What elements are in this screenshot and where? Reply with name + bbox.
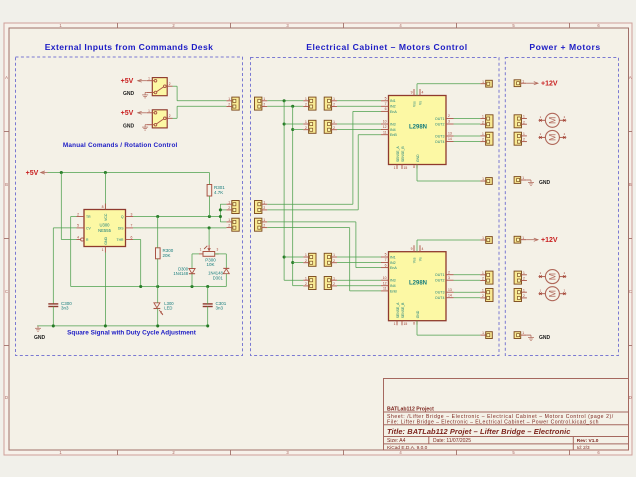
svg-text:D301: D301: [213, 275, 224, 280]
node: section box Electrical Cabinet Motors Control: [251, 58, 500, 356]
svg-text:SENSE_A: SENSE_A: [396, 302, 400, 318]
svg-text:IN1: IN1: [390, 255, 396, 259]
svg-text:6: 6: [385, 107, 387, 111]
diode D301 1N4148: [208, 268, 229, 280]
svg-text:Electrical Cabinet – Motors Co: Electrical Cabinet – Motors Control: [306, 42, 467, 52]
switch SW2: [147, 109, 173, 128]
svg-text:Title: BATLab112 Projet – Lift: Title: BATLab112 Projet – Lifter Bridge …: [387, 427, 570, 436]
wire output Q pin3: [133, 215, 220, 218]
connector pair J11/J12 IN1-IN2 lower: [303, 253, 316, 266]
svg-text:OUT2: OUT2: [435, 279, 445, 283]
svg-text:3: 3: [131, 212, 133, 216]
connector J19 (OUT1/2 chip1): [480, 115, 493, 128]
wire IN2 net (switch signal 2): [267, 105, 381, 286]
wire Vs chip2 to connector: [417, 240, 480, 252]
wire D300 to feedback row: [191, 274, 193, 287]
wire EnA chip2: [267, 222, 381, 268]
wire +5V to VCC pin 8: [104, 173, 106, 210]
svg-text:A: A: [629, 75, 632, 80]
ground (switch SW2): [123, 123, 148, 130]
op-amp U300 NE555: [77, 204, 134, 253]
svg-text:1: 1: [148, 77, 150, 81]
svg-text:GND: GND: [416, 154, 420, 162]
svg-text:File: Lifter Bridge – Electron: File: Lifter Bridge – Electronic – ELect…: [387, 419, 599, 425]
connector J3 (box1 edge, enable lower): [226, 218, 239, 231]
wire IN4 chip2 row: [293, 285, 381, 287]
wire R300 to feedback row: [157, 259, 159, 287]
svg-text:GND: GND: [539, 180, 551, 186]
svg-text:Vss: Vss: [412, 101, 416, 107]
wire SW1 output to connector J1: [173, 86, 227, 101]
svg-text:GND: GND: [416, 310, 420, 318]
wire OUT1/OUT2 chip2: [454, 275, 481, 281]
power +5V (main rail): [26, 170, 48, 177]
svg-text:Size: A4: Size: A4: [387, 438, 406, 444]
power +12V (upper): [526, 81, 558, 88]
svg-text:C: C: [629, 289, 632, 294]
svg-text:Power + Motors: Power + Motors: [529, 42, 600, 52]
svg-text:DIS: DIS: [118, 226, 124, 230]
ground (switch SW1): [123, 91, 148, 98]
svg-text:EnB: EnB: [390, 289, 397, 293]
svg-text:15: 15: [404, 166, 408, 170]
wire TR pin2 feedback: [71, 217, 77, 287]
connector J26 (GND upper): [514, 176, 526, 183]
svg-text:B: B: [5, 182, 8, 187]
svg-text:GND: GND: [34, 335, 46, 341]
potentiometer P300: [199, 245, 219, 267]
diode D300 1N4148: [173, 266, 195, 276]
wire EnB chip2: [267, 228, 381, 291]
connector J18 (GND chip2): [480, 331, 492, 338]
wire C300 to GND rail: [52, 307, 54, 326]
svg-text:9: 9: [411, 91, 413, 95]
wire IN3 chip1 row: [284, 123, 381, 125]
svg-text:SENSE_B: SENSE_B: [401, 146, 405, 162]
svg-text:1: 1: [394, 322, 396, 326]
svg-text:IN1: IN1: [390, 99, 396, 103]
svg-text:15: 15: [404, 322, 408, 326]
svg-text:2: 2: [448, 270, 450, 274]
svg-text:10: 10: [383, 276, 387, 280]
wire SW2 output to connector J1: [173, 106, 227, 118]
svg-text:6: 6: [385, 263, 387, 267]
wire IN1 chip2 row: [284, 256, 381, 258]
svg-text:20K: 20K: [163, 253, 171, 258]
svg-text:Manual Comands / Rotation Cont: Manual Comands / Rotation Control: [63, 142, 178, 149]
wire IN3 chip2 row: [284, 279, 381, 281]
connector J30 (GND lower): [514, 331, 526, 338]
svg-text:SENSE_B: SENSE_B: [401, 302, 405, 318]
connector J21 (OUT1/2 chip2): [480, 271, 493, 284]
motor M4: [539, 287, 567, 301]
wire LED to GND rail: [157, 309, 159, 326]
transistor driver U302 L298N: [381, 245, 454, 326]
wire OUT3/OUT4 chip2: [454, 292, 481, 298]
svg-text:11: 11: [383, 130, 387, 134]
connector J4 (box2 edge, switch signals in): [255, 97, 268, 110]
svg-text:4: 4: [77, 235, 79, 239]
svg-text:Square Signal with Duty Cycle: Square Signal with Duty Cycle Adjustment: [67, 330, 197, 337]
svg-text:NE555: NE555: [98, 228, 111, 233]
connector J24 (motor 1): [514, 115, 527, 128]
wire C301 to GND rail: [207, 307, 209, 326]
svg-text:10K: 10K: [206, 262, 214, 267]
svg-text:External Inputs from Commands: External Inputs from Commands Desk: [45, 42, 214, 52]
svg-text:4: 4: [422, 91, 424, 95]
wire EnB chip1: [267, 135, 381, 210]
motor M3: [539, 270, 567, 284]
svg-text:2: 2: [448, 114, 450, 118]
connector pair J13/J14 IN3-IN4 lower: [303, 276, 316, 289]
wire IN2 chip2 row: [293, 262, 381, 264]
svg-text:Date: 11/07/2025: Date: 11/07/2025: [433, 438, 471, 444]
svg-text:OUT4: OUT4: [435, 140, 445, 144]
svg-text:2: 2: [169, 114, 171, 118]
svg-text:TR: TR: [86, 215, 91, 219]
svg-text:7: 7: [385, 102, 387, 106]
wire D301 to feedback row: [225, 274, 227, 287]
wire Q to R300: [157, 217, 159, 248]
power +5V (switch SW2): [121, 110, 147, 117]
motor M2: [539, 130, 567, 144]
svg-text:IN2: IN2: [390, 261, 396, 265]
connector J27 (+12V lower): [514, 236, 526, 243]
svg-text:2: 2: [169, 82, 171, 86]
svg-text:3n3: 3n3: [61, 306, 69, 311]
svg-text:EnA: EnA: [390, 110, 397, 114]
svg-text:8: 8: [413, 321, 415, 325]
LED L300: [154, 301, 175, 315]
svg-text:Vs: Vs: [418, 101, 422, 105]
svg-text:3n3: 3n3: [216, 306, 224, 311]
ground (box3 lower): [526, 335, 550, 341]
resistor R300: [156, 248, 174, 259]
svg-text:OUT3: OUT3: [435, 291, 445, 295]
power +12V (lower): [526, 237, 558, 244]
svg-text:L298N: L298N: [409, 125, 427, 131]
svg-text:+5V: +5V: [121, 110, 134, 117]
svg-text:D: D: [5, 395, 8, 400]
svg-text:IN3: IN3: [390, 122, 396, 126]
svg-text:1: 1: [200, 248, 202, 252]
wire THR pin6: [133, 240, 141, 287]
node: section box Power + Motors: [505, 58, 618, 356]
svg-text:1: 1: [148, 109, 150, 113]
wire OUT3/OUT4 chip1: [454, 136, 481, 142]
svg-text:VCC: VCC: [104, 213, 108, 221]
svg-text:14: 14: [448, 293, 452, 297]
svg-text:5: 5: [77, 224, 79, 228]
svg-text:9: 9: [411, 247, 413, 251]
connector J28 (motor 3): [514, 271, 527, 284]
svg-text:KiCad E.D.A. 9.0.0: KiCad E.D.A. 9.0.0: [387, 445, 428, 451]
connector J16 (GND chip1): [480, 177, 492, 184]
connector J29 (motor 4): [514, 288, 527, 301]
connector J23 (+12V upper): [514, 79, 526, 86]
switch SW1: [147, 77, 173, 96]
svg-text:13: 13: [448, 132, 452, 136]
svg-text:3: 3: [448, 276, 450, 280]
wire GND chip1 to connector: [417, 165, 480, 182]
svg-text:A: A: [5, 75, 8, 80]
svg-text:+12V: +12V: [541, 237, 558, 244]
svg-text:OUT2: OUT2: [435, 122, 445, 126]
svg-text:IN3: IN3: [390, 279, 396, 283]
svg-text:Q: Q: [121, 215, 124, 219]
svg-text:7: 7: [385, 258, 387, 262]
svg-text:B: B: [629, 182, 632, 187]
svg-text:8: 8: [413, 165, 415, 169]
wire DIS pin7 to connector and P300 wiper: [133, 226, 226, 229]
svg-text:LED: LED: [164, 306, 172, 311]
capacitor C300: [48, 301, 72, 311]
ground (box3 upper): [526, 180, 550, 186]
wire +5V to reset pin 4: [61, 173, 76, 240]
resistor R301: [207, 185, 225, 197]
wire Vs chip1 to connector: [417, 84, 480, 96]
wire R301 bottom to Q: [208, 196, 210, 217]
svg-text:1: 1: [102, 248, 104, 252]
wire GND rail: [37, 324, 209, 327]
wire GND chip2 to connector: [417, 321, 480, 335]
connector pair J9/J10 IN3-IN4 upper: [303, 120, 316, 133]
connector J1 (box1 edge, switch signals): [226, 97, 239, 110]
svg-text:D: D: [629, 395, 632, 400]
svg-text:1N4148: 1N4148: [173, 271, 188, 276]
wire EnA chip1: [267, 111, 381, 204]
svg-text:1: 1: [394, 166, 396, 170]
svg-text:BATLab112 Project: BATLab112 Project: [387, 407, 434, 413]
wire feedback row to C301: [207, 287, 209, 304]
connector pair J7/J8 IN1-IN2 upper: [303, 97, 316, 110]
svg-text:GND: GND: [123, 91, 135, 97]
svg-text:5: 5: [385, 97, 387, 101]
svg-text:IN4: IN4: [390, 128, 396, 132]
capacitor C301: [203, 301, 227, 311]
svg-text:OUT1: OUT1: [435, 117, 445, 121]
transistor driver U301 L298N: [381, 89, 454, 170]
svg-text:3: 3: [217, 248, 219, 252]
wire feedback row: [71, 285, 227, 288]
wire CV pin5 to C300: [53, 228, 76, 304]
svg-text:+12V: +12V: [541, 81, 558, 88]
svg-text:U300: U300: [99, 223, 110, 228]
svg-text:EnB: EnB: [390, 133, 397, 137]
svg-text:C: C: [5, 289, 8, 294]
connector J15 (Vs chip1): [480, 80, 492, 87]
svg-text:SENSE_A: SENSE_A: [396, 146, 400, 162]
node: section box External Inputs from Commands Desk: [16, 57, 243, 356]
wire IN4 chip1 row: [293, 129, 381, 131]
connector J22 (OUT3/4 chip2): [480, 288, 493, 301]
connector J17 (Vs chip2): [480, 236, 492, 243]
wire OUT1/OUT2 chip1: [454, 119, 481, 125]
connector J20 (OUT3/4 chip1): [480, 132, 493, 145]
svg-text:Rev: V1.0: Rev: V1.0: [577, 438, 599, 444]
svg-text:Vss: Vss: [412, 257, 416, 263]
svg-text:GND: GND: [104, 236, 108, 244]
svg-text:2: 2: [77, 212, 79, 216]
svg-text:OUT4: OUT4: [435, 296, 445, 300]
svg-text:IN4: IN4: [390, 284, 396, 288]
svg-text:5: 5: [385, 253, 387, 257]
svg-text:13: 13: [448, 288, 452, 292]
wire P300 right to D301: [215, 254, 227, 269]
svg-text:8: 8: [102, 205, 104, 209]
wire +5V rail: [48, 171, 210, 174]
wire DIS to P300 wiper: [208, 228, 210, 245]
wire R301 top to +5V: [208, 173, 210, 185]
wire feedback row to LED: [157, 287, 159, 303]
svg-text:+5V: +5V: [121, 78, 134, 85]
svg-text:4.7K: 4.7K: [214, 190, 223, 195]
power +5V (switch SW1): [121, 78, 147, 85]
svg-text:GND: GND: [539, 335, 551, 341]
svg-text:CV: CV: [86, 226, 91, 230]
ground (main): [34, 326, 46, 341]
wire P300 left to D300: [192, 254, 199, 269]
svg-text:L298N: L298N: [409, 281, 427, 287]
svg-text:6: 6: [131, 235, 133, 239]
connector J2 (box1 edge, enable upper): [226, 200, 239, 213]
svg-text:EnA: EnA: [390, 266, 397, 270]
svg-text:Id: 2/3: Id: 2/3: [577, 445, 590, 450]
connector J25 (motor 2): [514, 132, 527, 145]
wire Q to connectors J2/J3: [219, 204, 227, 222]
svg-text:14: 14: [448, 137, 452, 141]
connector J6 (box2 edge, enable lower in): [255, 218, 268, 231]
svg-text:OUT3: OUT3: [435, 134, 445, 138]
svg-text:10: 10: [383, 120, 387, 124]
svg-text:11: 11: [383, 287, 387, 291]
svg-text:IN2: IN2: [390, 105, 396, 109]
svg-text:Vs: Vs: [418, 257, 422, 261]
svg-text:12: 12: [383, 281, 387, 285]
motor M1: [539, 113, 567, 127]
svg-text:4: 4: [422, 247, 424, 251]
connector J5 (box2 edge, enable upper in): [255, 200, 268, 213]
svg-text:THR: THR: [117, 238, 125, 242]
svg-text:3: 3: [448, 120, 450, 124]
svg-text:7: 7: [131, 224, 133, 228]
svg-text:12: 12: [383, 125, 387, 129]
svg-text:OUT1: OUT1: [435, 273, 445, 277]
svg-text:GND: GND: [123, 123, 135, 129]
wire GND pin1 of U300: [104, 253, 106, 326]
wire IN1 net (switch signal 1): [267, 99, 381, 280]
svg-text:+5V: +5V: [26, 170, 39, 177]
